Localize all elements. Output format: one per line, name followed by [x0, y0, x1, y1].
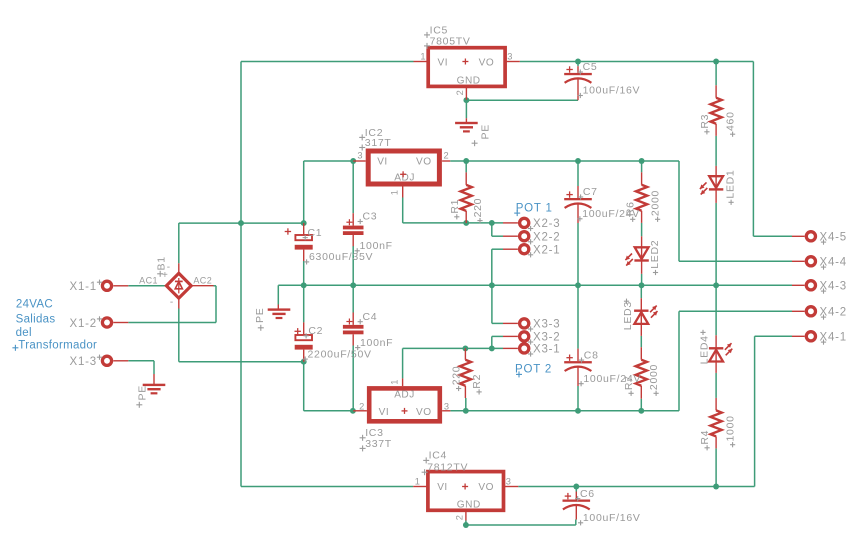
svg-text:Transformador: Transformador — [18, 339, 97, 351]
svg-text:R4: R4 — [699, 430, 711, 445]
svg-text:AC2: AC2 — [193, 275, 212, 285]
svg-text:LED2: LED2 — [649, 240, 661, 269]
svg-text:VI: VI — [379, 407, 390, 418]
svg-text:C3: C3 — [363, 211, 378, 223]
svg-text:GND: GND — [457, 75, 481, 86]
svg-text:IC4: IC4 — [429, 450, 447, 462]
svg-text:Salidas: Salidas — [16, 314, 56, 326]
svg-text:ADJ: ADJ — [394, 389, 415, 400]
svg-text:C8: C8 — [584, 349, 599, 361]
svg-text:C6: C6 — [580, 488, 595, 500]
svg-text:220: 220 — [472, 198, 484, 218]
svg-text:POT 1: POT 1 — [516, 202, 553, 214]
svg-text:R2: R2 — [471, 374, 483, 389]
svg-text:3: 3 — [444, 401, 449, 411]
svg-text:6300uF/35V: 6300uF/35V — [309, 251, 373, 263]
svg-text:C4: C4 — [363, 311, 378, 323]
svg-text:del: del — [16, 327, 32, 339]
svg-text:X3-3: X3-3 — [533, 319, 561, 331]
svg-text:VO: VO — [416, 156, 432, 167]
svg-text:7805TV: 7805TV — [430, 35, 471, 47]
svg-text:VI: VI — [438, 57, 449, 68]
svg-text:1: 1 — [415, 477, 420, 487]
svg-text:B1: B1 — [156, 256, 168, 270]
svg-text:2: 2 — [455, 90, 465, 95]
svg-text:7812TV: 7812TV — [427, 462, 468, 474]
svg-text:100nF: 100nF — [360, 337, 393, 349]
svg-text:GND: GND — [457, 499, 481, 510]
svg-text:R3: R3 — [699, 114, 711, 129]
svg-text:X1-1: X1-1 — [70, 281, 98, 293]
svg-text:2: 2 — [444, 151, 449, 161]
svg-text:C2: C2 — [308, 325, 323, 337]
svg-text:3: 3 — [506, 477, 511, 487]
svg-text:PE: PE — [480, 124, 492, 139]
svg-text:VI: VI — [437, 482, 448, 493]
svg-text:100uF/16V: 100uF/16V — [583, 512, 641, 524]
svg-text:X2-1: X2-1 — [533, 245, 561, 257]
svg-text:2: 2 — [454, 515, 464, 520]
svg-text:317T: 317T — [365, 137, 392, 149]
svg-text:100uF/16V: 100uF/16V — [583, 85, 641, 97]
svg-text:VI: VI — [377, 156, 388, 167]
svg-text:LED4: LED4 — [698, 335, 710, 364]
svg-text:LED3: LED3 — [622, 301, 634, 330]
svg-text:24VAC: 24VAC — [16, 299, 53, 311]
svg-text:460: 460 — [725, 111, 737, 131]
svg-text:PE: PE — [254, 308, 266, 323]
svg-text:X1-2: X1-2 — [70, 318, 98, 330]
svg-text:1: 1 — [389, 190, 399, 195]
svg-text:X1-3: X1-3 — [70, 356, 98, 368]
svg-text:VO: VO — [416, 407, 432, 418]
svg-text:220: 220 — [451, 366, 463, 386]
svg-text:100uF/24V: 100uF/24V — [583, 373, 641, 385]
svg-text:2: 2 — [359, 401, 364, 411]
svg-text:C1: C1 — [308, 227, 323, 239]
svg-text:X2-3: X2-3 — [533, 218, 561, 230]
svg-text:PE: PE — [136, 385, 148, 400]
svg-text:-: - — [170, 297, 173, 308]
svg-text:R1: R1 — [449, 199, 461, 214]
svg-text:100nF: 100nF — [360, 240, 393, 252]
svg-text:X2-2: X2-2 — [533, 232, 561, 244]
svg-text:100uF/24V: 100uF/24V — [582, 208, 640, 220]
svg-text:2000: 2000 — [650, 190, 662, 216]
svg-text:VO: VO — [479, 57, 495, 68]
svg-text:AC1: AC1 — [139, 275, 158, 285]
svg-text:LED1: LED1 — [725, 170, 737, 199]
svg-text:X3-2: X3-2 — [533, 332, 561, 344]
svg-text:337T: 337T — [365, 438, 392, 450]
svg-text:1000: 1000 — [725, 415, 737, 441]
svg-text:-: - — [167, 262, 170, 273]
svg-text:3: 3 — [507, 52, 512, 62]
svg-text:C5: C5 — [583, 61, 598, 73]
svg-text:3: 3 — [357, 151, 362, 161]
svg-text:1: 1 — [420, 52, 425, 62]
svg-text:POT 2: POT 2 — [515, 363, 552, 375]
svg-text:X3-1: X3-1 — [533, 344, 561, 356]
svg-text:2000: 2000 — [648, 364, 660, 390]
svg-text:VO: VO — [478, 482, 494, 493]
svg-text:C7: C7 — [583, 186, 598, 198]
svg-text:2200uF/50V: 2200uF/50V — [308, 348, 372, 360]
svg-text:1: 1 — [390, 380, 400, 385]
